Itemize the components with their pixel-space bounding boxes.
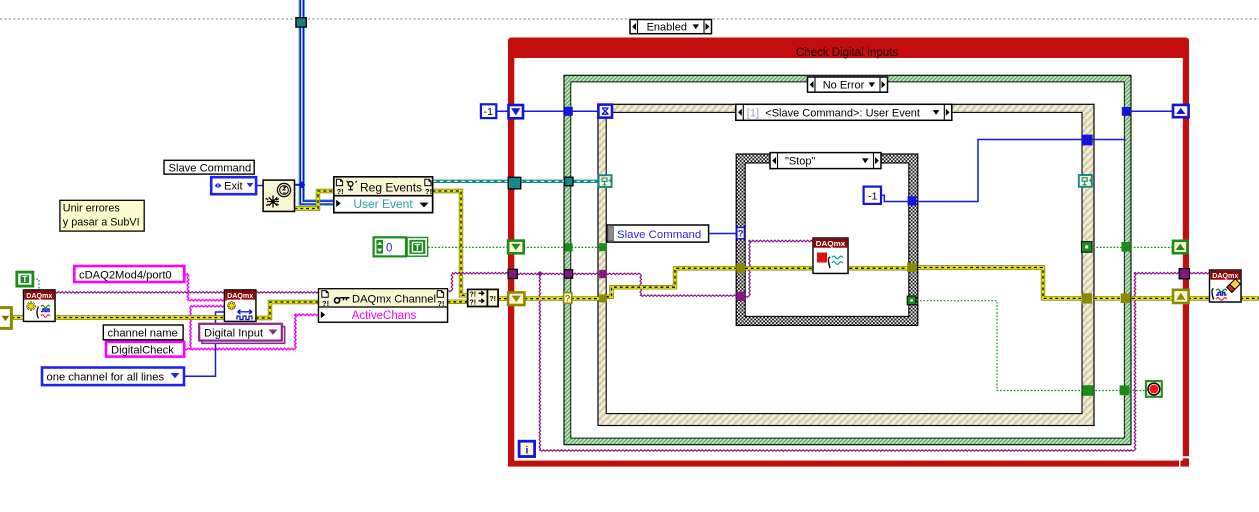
merge errors node (469, 291, 498, 307)
case structure No Error border (564, 75, 1131, 444)
event data node Slave Command (607, 225, 709, 242)
svg-text:Reg Events: Reg Events (360, 180, 422, 194)
svg-text:[1]: [1] (747, 107, 759, 119)
tunnel case event reg left (565, 177, 573, 186)
svg-text:-1: -1 (868, 191, 877, 203)
wire -1 in Stop case (881, 195, 908, 201)
wire error out of Stop case (918, 268, 1081, 299)
shift register right error (1173, 290, 1189, 303)
junction user event (298, 181, 305, 188)
numeric constant 0 (374, 237, 406, 256)
wire error through Stop case (745, 266, 908, 270)
svg-text:Digital Input: Digital Input (204, 328, 264, 340)
svg-text:Exit: Exit (224, 181, 244, 193)
free label sticky: Unir errores y pasar a SubVI (60, 200, 144, 231)
Reg Events node (335, 178, 432, 212)
wire exit ring to clock node (256, 185, 263, 187)
wire boolean inside loop (524, 246, 600, 248)
tunnel case timeout left (564, 107, 572, 116)
tunnel event error right (1081, 293, 1092, 303)
tunnel event timeout right (1082, 135, 1093, 146)
wire line grouping to create channel (184, 312, 224, 376)
svg-text:channel name: channel name (108, 327, 178, 339)
disable-structure dotted border (0, 18, 1259, 20)
iteration terminal i (519, 441, 535, 456)
dynamic event terminal right (1079, 175, 1092, 187)
numeric constant -1 (Stop case) (864, 187, 881, 204)
svg-text:ActiveChans: ActiveChans (352, 310, 417, 322)
svg-text:one channel for all lines: one channel for all lines (47, 372, 165, 384)
case structure Stop border (736, 154, 918, 325)
svg-text:?!: ?! (489, 296, 496, 303)
wire error between borders (1094, 296, 1120, 300)
boolean constant T (by 0) (407, 237, 428, 256)
tunnel case task left (564, 270, 572, 278)
svg-text:"Stop": "Stop" (785, 156, 816, 168)
shift register right timeout (1173, 105, 1189, 117)
tunnel event reg refnum left (508, 177, 521, 189)
stop button (1146, 381, 1162, 397)
tunnel event boolean left (599, 243, 606, 251)
svg-text:DAQmx Channel: DAQmx Channel (352, 294, 436, 306)
junction task wire (537, 271, 543, 277)
clock node (obtain user event) (265, 182, 295, 212)
wire error to right shift register (1132, 296, 1173, 300)
svg-text:?: ? (565, 294, 571, 305)
tunnel Stop task left (736, 292, 745, 301)
wire error property node to merge (448, 300, 468, 304)
DAQmx Channel property node (320, 290, 448, 322)
svg-text:User Event: User Event (353, 197, 413, 211)
svg-text:Enabled: Enabled (647, 22, 687, 34)
ring Digital Input (202, 327, 285, 344)
wire task inside Stop case (745, 240, 813, 297)
selector Stop case (770, 153, 881, 169)
wire -1 timeout to event structure (496, 110, 598, 112)
wire error shift reg to event structure (524, 296, 599, 300)
tunnel case boolean left (564, 243, 572, 251)
wire timeout out of Stop case (917, 140, 1126, 202)
svg-text:Unir errores: Unir errores (63, 203, 121, 215)
svg-text:DAQmx: DAQmx (26, 291, 53, 300)
dynamic event terminal left (599, 175, 612, 187)
wire task inside event structure (606, 273, 736, 296)
svg-text:?!: ?! (470, 299, 477, 306)
svg-text:Slave Command: Slave Command (169, 162, 252, 174)
tunnel task left (508, 269, 517, 278)
Stop case selector terminal ? (737, 227, 745, 238)
wire error inside event structure (606, 268, 736, 297)
wire event registration refnum (433, 180, 599, 183)
label Slave Command (164, 160, 254, 174)
wire boolean to right shift register (1093, 246, 1173, 248)
wire boolean stop to button (917, 301, 1147, 391)
svg-text:cDAQ2Mod4/port0: cDAQ2Mod4/port0 (79, 269, 172, 281)
DAQmx stop task node (815, 240, 849, 274)
wire user event refnum vertical (302, 0, 334, 203)
DAQmx create task node (25, 291, 55, 321)
tunnel Stop error right (907, 263, 917, 272)
tunnel Stop -1 right (908, 196, 917, 205)
while loop Check Digital Inputs border (508, 38, 1189, 59)
constant cDAQ2Mod4/port0 (74, 266, 184, 282)
tunnel Stop error left (736, 264, 745, 273)
tunnel event stop-bool right (1082, 385, 1093, 396)
boolean constant T (standalone) (17, 272, 33, 286)
svg-text:?!: ?! (437, 299, 444, 308)
svg-text:-1: -1 (484, 106, 493, 118)
constant DigitalCheck (106, 342, 184, 357)
svg-text:?!: ?! (425, 187, 432, 196)
wire DigitalCheck name to create channel (184, 305, 224, 349)
svg-text:DAQmx: DAQmx (816, 239, 846, 248)
wire error to DAQmx clear and edge (1188, 296, 1259, 300)
tunnel event error left (599, 294, 606, 302)
wire task tunnel to DAQmx clear (1190, 272, 1210, 274)
page glyph + error glyphs property node (322, 291, 328, 298)
wire error merge to shift register (498, 296, 509, 300)
tunnel task right (1179, 269, 1189, 279)
svg-text:0: 0 (386, 242, 392, 254)
shift register left error (508, 292, 524, 305)
wire stub clock to junction (295, 184, 301, 186)
svg-text:?!: ?! (322, 299, 329, 308)
tunnel disable structure (296, 18, 306, 27)
tunnel event boolean right (default) (1081, 242, 1092, 253)
svg-text:DigitalCheck: DigitalCheck (111, 344, 174, 356)
svg-text:Check Digital Inputs: Check Digital Inputs (796, 47, 899, 59)
svg-text:Slave Command: Slave Command (617, 229, 701, 241)
wire error Reg Events to merge (433, 191, 468, 295)
wire task around loop bottom to clear (539, 272, 1184, 451)
svg-text:T: T (22, 274, 28, 284)
svg-text:<Slave Command>: User Event: <Slave Command>: User Event (765, 107, 920, 119)
svg-text:?!: ?! (470, 292, 477, 299)
event structure border (598, 104, 1094, 425)
svg-text:y pasar a SubVI: y pasar a SubVI (63, 216, 140, 228)
case selector terminal ? (564, 293, 572, 304)
svg-text:?: ? (738, 229, 744, 240)
DAQmx clear task node (1211, 272, 1241, 303)
wire boolean T to shift register (428, 246, 509, 248)
event timeout terminal hourglass (598, 105, 612, 118)
tunnel case boolean right (1121, 242, 1130, 252)
enum constant stub at left edge (0, 308, 11, 329)
wire slave command to case selector (709, 233, 738, 235)
wire task property node to loop tunnel (448, 272, 509, 291)
label channel name (103, 325, 183, 340)
selector Enabled (630, 20, 712, 34)
DAQmx create virtual channel node (226, 291, 256, 321)
tunnel case error right (1121, 293, 1131, 303)
shift register right boolean (1173, 241, 1187, 253)
wire task create-task to property node (55, 292, 319, 294)
wire task through tunnels (517, 273, 606, 275)
wire boolean T2 to DAQmx node top (33, 279, 39, 290)
selector No Error (808, 77, 888, 92)
svg-text:?!: ?! (337, 187, 344, 196)
wire error clock to Reg Events (295, 191, 334, 209)
wire cDAQ2Mod4/port0 to create channel (184, 273, 224, 301)
shift register left boolean (508, 241, 524, 254)
wire error create channel to property node (256, 302, 319, 318)
wire error from enum through create task (11, 315, 224, 319)
wire DigitalCheck to ActiveChans (191, 314, 319, 350)
wire timeout to right shift register (1130, 110, 1173, 112)
selector event case (736, 104, 952, 120)
svg-text:No Error: No Error (823, 80, 865, 92)
tunnel case timeout right (1122, 107, 1131, 116)
numeric constant -1 (outside loop) (481, 104, 496, 118)
svg-text:DAQmx: DAQmx (227, 291, 254, 300)
tunnel case stop-bool right (1120, 385, 1130, 395)
ring constant Exit (211, 177, 256, 194)
tunnel event task left (599, 270, 606, 278)
svg-text:T: T (414, 243, 420, 254)
shift register left timeout (509, 105, 524, 118)
svg-text:i: i (525, 444, 528, 456)
ring one channel for all lines (42, 368, 184, 386)
tunnel Stop boolean right (default) (907, 296, 916, 305)
